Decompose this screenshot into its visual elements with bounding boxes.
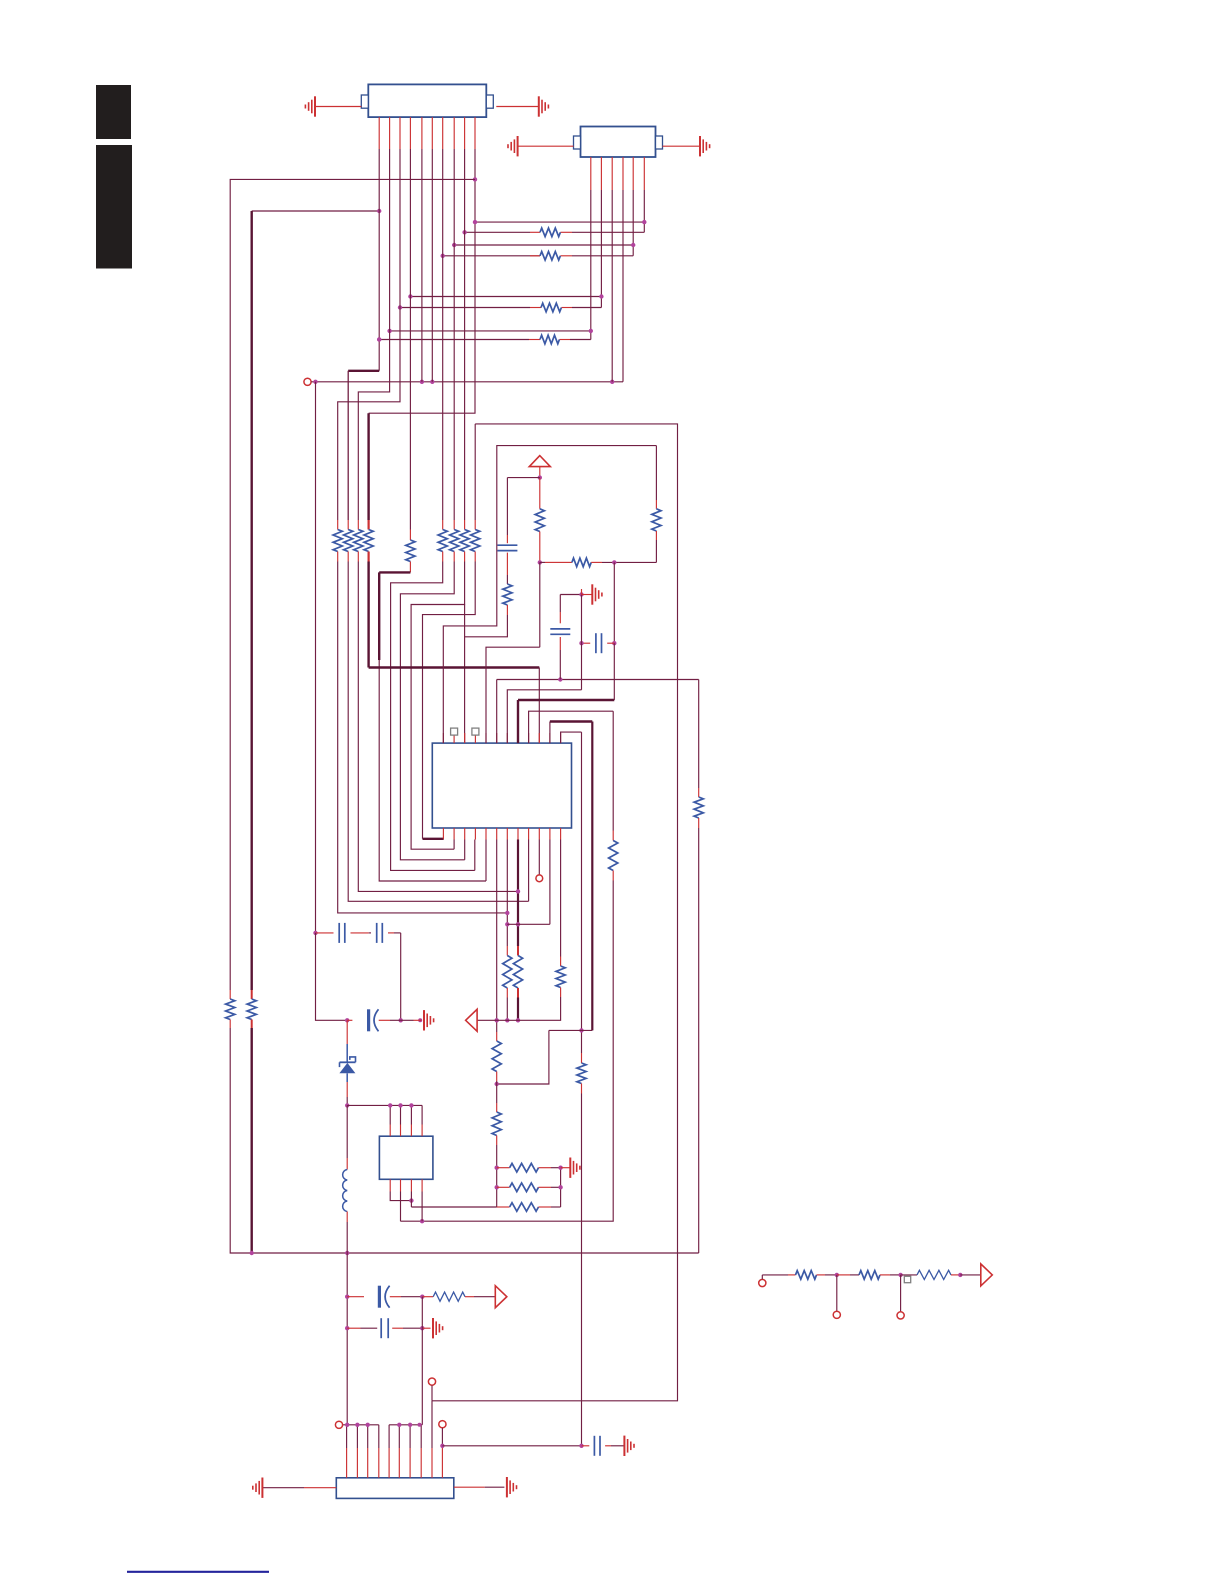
node xyxy=(516,889,520,893)
wire xyxy=(538,840,540,875)
resistor R5 xyxy=(226,999,235,1020)
wire xyxy=(378,149,380,371)
wire xyxy=(441,1446,443,1448)
terminal xyxy=(439,1421,446,1428)
wire xyxy=(528,840,530,902)
black index tab 2 xyxy=(96,145,132,269)
wire xyxy=(315,382,317,933)
wire xyxy=(611,190,613,382)
connector J2 xyxy=(581,127,656,158)
wire xyxy=(347,1104,422,1106)
wire xyxy=(496,680,498,744)
wire xyxy=(697,1252,700,1254)
wire xyxy=(454,1486,485,1488)
wire xyxy=(251,990,253,999)
wire xyxy=(389,1424,422,1426)
node xyxy=(473,177,477,181)
wire xyxy=(346,1073,348,1082)
connector J3 pins xyxy=(346,1425,348,1448)
wire xyxy=(230,1028,698,1253)
wire xyxy=(388,932,394,934)
node xyxy=(538,475,542,479)
wire xyxy=(549,1029,592,1031)
wire xyxy=(250,211,252,990)
wire xyxy=(252,210,380,212)
ground xyxy=(623,1436,625,1456)
resistor R30 xyxy=(510,1203,539,1212)
wire xyxy=(582,642,591,644)
wire xyxy=(591,722,593,1031)
node xyxy=(345,1423,349,1427)
wire xyxy=(442,149,444,520)
wire xyxy=(391,562,475,871)
resistor R11 xyxy=(406,540,415,562)
wire xyxy=(591,561,602,563)
resistor R19 xyxy=(652,509,661,531)
wire xyxy=(262,1487,304,1489)
wire xyxy=(316,932,334,934)
wire xyxy=(443,446,656,743)
terminal xyxy=(833,1311,840,1318)
wire xyxy=(581,1084,583,1094)
signal flag xyxy=(466,1009,478,1031)
wire xyxy=(549,722,551,744)
resistor R20 xyxy=(577,1063,586,1084)
wire xyxy=(590,190,592,340)
node xyxy=(377,337,381,341)
wire xyxy=(358,149,389,520)
wire xyxy=(901,1274,917,1276)
no-connect square pin2 xyxy=(451,728,458,735)
wire xyxy=(378,572,380,660)
wire xyxy=(698,680,700,789)
terminal xyxy=(536,875,543,882)
wire xyxy=(539,562,541,647)
wire xyxy=(582,1445,590,1447)
node xyxy=(418,1018,422,1022)
wire xyxy=(549,840,551,925)
node xyxy=(420,1295,424,1299)
node xyxy=(579,1444,583,1448)
wire xyxy=(400,307,530,309)
wire xyxy=(496,1072,498,1082)
ground xyxy=(538,96,540,116)
wire xyxy=(347,1327,360,1329)
wire xyxy=(539,478,541,500)
wire xyxy=(423,562,476,839)
resistor R21 xyxy=(609,841,618,871)
wire xyxy=(316,933,348,1020)
wire xyxy=(529,711,614,743)
power flag xyxy=(529,456,550,467)
wire xyxy=(560,957,562,967)
connector J2 pins xyxy=(590,157,592,190)
wire xyxy=(379,1019,390,1021)
node xyxy=(612,560,616,564)
IC U1 xyxy=(432,743,571,828)
wire xyxy=(507,690,581,743)
wire xyxy=(560,840,562,957)
wire xyxy=(762,1274,788,1276)
capacitor C4 xyxy=(338,923,340,943)
wire xyxy=(506,553,508,575)
node xyxy=(579,1028,583,1032)
wire xyxy=(346,1020,348,1044)
node xyxy=(377,209,381,213)
wire xyxy=(421,1105,423,1124)
wire xyxy=(431,1401,433,1448)
wire xyxy=(442,552,444,562)
wire xyxy=(346,1044,348,1062)
wire xyxy=(613,562,615,643)
node xyxy=(558,1166,562,1170)
wire xyxy=(351,932,369,934)
wire xyxy=(612,871,614,881)
wire xyxy=(347,1296,364,1298)
wire xyxy=(401,1019,414,1021)
wire xyxy=(612,831,614,841)
wire xyxy=(517,700,519,743)
wire xyxy=(581,1094,583,1446)
resistor R32 xyxy=(796,1271,817,1280)
wire xyxy=(496,1084,498,1103)
wire xyxy=(559,595,561,613)
resistor R34 xyxy=(917,1270,951,1279)
capacitor C9 xyxy=(593,1436,595,1456)
wire xyxy=(496,1136,498,1146)
wire xyxy=(411,1206,496,1208)
resistor R23 xyxy=(503,956,512,989)
wire xyxy=(379,339,529,341)
wire xyxy=(400,933,402,1020)
node xyxy=(420,1326,424,1330)
IC U1 top pins xyxy=(442,733,444,743)
node xyxy=(408,294,412,298)
resistor R4 xyxy=(540,335,559,344)
resistor R8 xyxy=(344,530,353,552)
wire xyxy=(506,605,508,615)
wire xyxy=(348,370,379,372)
wire xyxy=(900,1275,902,1312)
wire xyxy=(337,552,339,562)
wire xyxy=(643,190,645,232)
wire xyxy=(422,1327,430,1329)
node xyxy=(579,592,583,596)
wire xyxy=(559,612,561,623)
terminal xyxy=(759,1279,766,1286)
wire xyxy=(612,711,614,830)
node xyxy=(313,380,317,384)
wire xyxy=(421,1297,423,1329)
node xyxy=(558,677,562,681)
wire xyxy=(453,149,455,520)
resistor R10 xyxy=(364,530,373,552)
wire xyxy=(409,149,411,530)
node xyxy=(345,1295,349,1299)
wire xyxy=(346,1105,348,1158)
ground xyxy=(517,136,519,156)
wire xyxy=(431,149,433,382)
wire xyxy=(485,840,487,882)
wire xyxy=(410,296,601,298)
wire xyxy=(517,988,519,998)
node xyxy=(409,1198,413,1202)
wire xyxy=(539,1167,552,1169)
resistor R18 xyxy=(572,558,591,567)
wire xyxy=(951,1274,960,1276)
ground xyxy=(591,584,593,604)
node xyxy=(579,641,583,645)
wire xyxy=(348,562,528,902)
node xyxy=(452,243,456,247)
wire xyxy=(229,1020,231,1029)
wire xyxy=(464,840,466,860)
ground xyxy=(699,136,701,156)
wire xyxy=(497,1167,510,1169)
terminal xyxy=(897,1312,904,1319)
wire xyxy=(311,381,623,383)
wire xyxy=(464,605,466,744)
node xyxy=(345,1103,349,1107)
wire xyxy=(367,413,369,520)
wire xyxy=(400,881,613,1222)
wire xyxy=(486,647,540,743)
wire xyxy=(251,1020,253,1029)
wire xyxy=(538,668,540,744)
wire xyxy=(465,1296,474,1298)
wire xyxy=(453,840,455,850)
wire xyxy=(698,788,700,797)
resistor R2 xyxy=(540,252,560,261)
ground xyxy=(432,1318,434,1338)
resistor R25 xyxy=(556,966,565,988)
wire xyxy=(582,594,593,596)
wire xyxy=(390,330,591,332)
wire xyxy=(421,1192,423,1222)
wire xyxy=(506,988,508,998)
wire xyxy=(250,1028,252,1253)
resistor R6 xyxy=(247,999,256,1020)
node xyxy=(399,1018,403,1022)
node xyxy=(538,560,542,564)
resistor R9 xyxy=(354,530,363,552)
wire xyxy=(517,946,519,956)
wire xyxy=(880,1274,890,1276)
ground xyxy=(261,1478,263,1498)
wire xyxy=(346,1212,348,1223)
wire xyxy=(761,1275,763,1279)
wire xyxy=(550,720,592,722)
wire xyxy=(559,637,561,650)
capacitor C2 xyxy=(595,633,597,653)
capacitor C6 polarized xyxy=(367,1009,370,1031)
capacitor C5 xyxy=(376,923,378,943)
wire xyxy=(347,1019,352,1021)
wire xyxy=(497,1030,549,1084)
wire xyxy=(540,561,545,563)
terminal xyxy=(428,1378,435,1385)
ground xyxy=(423,1010,425,1030)
wire xyxy=(454,244,633,246)
wire xyxy=(476,997,560,1020)
capacitor C8 xyxy=(380,1318,382,1338)
resistor R16 xyxy=(535,509,544,532)
wire xyxy=(655,446,657,500)
node xyxy=(440,1444,444,1448)
resistor R15 xyxy=(471,530,480,552)
wire xyxy=(229,990,231,999)
wire xyxy=(465,615,508,637)
wire xyxy=(421,149,423,382)
signal flag xyxy=(981,1264,993,1286)
wire xyxy=(607,642,614,644)
wire xyxy=(230,179,475,990)
wire xyxy=(369,666,540,668)
node xyxy=(516,1018,520,1022)
wire xyxy=(431,1385,433,1400)
resistor R24 xyxy=(513,956,522,989)
signal flag xyxy=(495,1286,507,1308)
wire xyxy=(496,106,539,108)
wire xyxy=(507,477,539,479)
wire xyxy=(581,595,583,690)
wire xyxy=(442,838,444,841)
wire xyxy=(422,1296,433,1298)
wire xyxy=(632,190,634,256)
resistor R26 xyxy=(492,1041,501,1072)
wire xyxy=(315,106,361,108)
wire xyxy=(517,840,519,947)
wire xyxy=(443,255,540,257)
resistor R17 xyxy=(503,584,512,605)
connector J1 pins xyxy=(378,117,380,149)
wire xyxy=(474,840,476,871)
wire xyxy=(561,732,582,743)
node xyxy=(388,1103,392,1107)
wire xyxy=(411,562,465,850)
wire xyxy=(496,1103,498,1112)
resistor R31 xyxy=(433,1292,465,1301)
resistor R3 xyxy=(541,303,561,312)
node xyxy=(898,1273,902,1277)
node xyxy=(495,1018,499,1022)
node xyxy=(612,641,616,645)
wire xyxy=(836,1275,838,1311)
wire xyxy=(410,1192,412,1208)
wire xyxy=(358,562,518,892)
resistor R1 xyxy=(540,228,560,237)
wire xyxy=(347,371,349,520)
IC U1 bottom pins xyxy=(442,828,444,840)
wire xyxy=(605,1445,611,1447)
wire xyxy=(497,1186,510,1188)
wire xyxy=(560,988,562,998)
wire xyxy=(698,828,700,1253)
wire xyxy=(506,946,508,956)
resistor R7 xyxy=(333,530,342,552)
resistor R12 xyxy=(438,530,447,552)
node xyxy=(958,1273,962,1277)
wire xyxy=(442,1445,581,1447)
ground xyxy=(314,96,316,116)
wire xyxy=(960,1274,981,1276)
wire xyxy=(337,520,339,530)
wire xyxy=(496,840,498,1033)
wire xyxy=(556,561,572,563)
resistor R28 xyxy=(510,1163,539,1172)
wire xyxy=(409,562,411,573)
wire xyxy=(539,467,541,478)
node xyxy=(505,1018,509,1022)
wire xyxy=(379,660,486,881)
node xyxy=(835,1273,839,1277)
resistor R29 xyxy=(510,1183,539,1192)
wire xyxy=(423,838,444,840)
wire xyxy=(409,530,411,541)
wire xyxy=(506,478,508,535)
resistor R27 xyxy=(492,1112,501,1136)
connector J1 xyxy=(368,84,486,117)
wire xyxy=(561,1167,571,1169)
wire xyxy=(507,923,550,925)
resistor R14 xyxy=(460,530,469,552)
wire xyxy=(506,535,508,543)
capacitor C7 polarized xyxy=(378,1286,381,1308)
wire xyxy=(441,1428,443,1446)
wire xyxy=(663,145,701,147)
node xyxy=(345,1018,349,1022)
wire xyxy=(414,1019,422,1021)
wire xyxy=(506,840,508,947)
wire xyxy=(539,532,541,563)
wire xyxy=(390,1296,401,1298)
IC U2 top pins xyxy=(389,1125,391,1137)
wire xyxy=(346,1082,348,1097)
zener diode D1 xyxy=(339,1063,355,1073)
wire xyxy=(432,424,678,1401)
wire xyxy=(560,594,581,596)
wire xyxy=(539,1206,552,1208)
wire xyxy=(474,424,476,520)
ground xyxy=(569,1158,571,1178)
wire xyxy=(560,1168,562,1207)
wire xyxy=(379,571,410,573)
resistor R13 xyxy=(450,530,459,552)
wire xyxy=(497,679,699,681)
wire xyxy=(518,699,614,701)
terminal xyxy=(335,1421,342,1428)
wire xyxy=(613,643,615,700)
wire xyxy=(581,732,583,1053)
wire xyxy=(837,1274,850,1276)
ground xyxy=(506,1477,508,1497)
node xyxy=(313,931,317,935)
node xyxy=(420,1219,424,1223)
node xyxy=(495,1082,499,1086)
wire xyxy=(581,589,583,595)
wire xyxy=(369,149,475,413)
node xyxy=(345,1326,349,1330)
wire xyxy=(655,531,657,540)
black index tab 1 xyxy=(96,85,131,139)
resistor R22 xyxy=(694,797,703,818)
no-connect square pin4 xyxy=(472,728,479,735)
no-connect square xyxy=(904,1276,910,1282)
inductor L1 xyxy=(343,1170,348,1181)
capacitor C1 xyxy=(497,544,517,546)
wire xyxy=(389,1105,391,1124)
wire xyxy=(338,149,400,520)
